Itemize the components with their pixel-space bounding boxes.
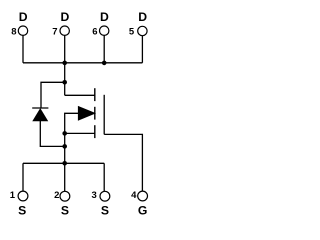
svg-text:6: 6 <box>92 27 97 38</box>
svg-text:7: 7 <box>52 27 57 38</box>
svg-text:8: 8 <box>11 27 16 38</box>
svg-text:4: 4 <box>131 190 137 201</box>
svg-text:1: 1 <box>10 190 16 201</box>
svg-text:D: D <box>19 10 28 24</box>
svg-text:D: D <box>138 10 147 24</box>
svg-text:S: S <box>101 204 109 218</box>
svg-text:G: G <box>138 204 147 218</box>
svg-text:3: 3 <box>92 190 97 201</box>
svg-text:5: 5 <box>129 27 135 38</box>
svg-text:S: S <box>18 204 26 218</box>
svg-text:S: S <box>61 204 69 218</box>
svg-text:D: D <box>100 10 109 24</box>
svg-text:D: D <box>60 10 69 24</box>
svg-text:2: 2 <box>54 190 59 201</box>
